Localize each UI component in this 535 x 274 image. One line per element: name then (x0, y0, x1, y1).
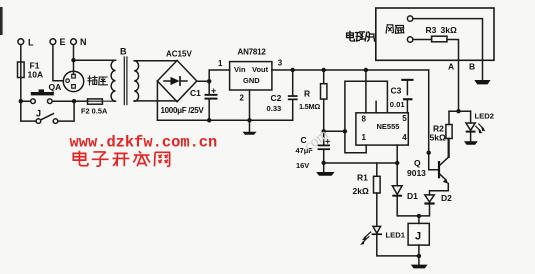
wire ground line to R1 top (324, 162, 398, 164)
timer NE555 (356, 113, 408, 145)
fan terminal bottom (407, 37, 412, 42)
wire pin4 down to D1 (396, 145, 398, 163)
svg-text:GND: GND (243, 76, 260, 85)
svg-text:NE555: NE555 (377, 122, 400, 131)
svg-text:QA: QA (49, 82, 62, 92)
wire secondary bottom to bridge (134, 100, 177, 102)
svg-text:J: J (415, 231, 421, 243)
wire fan top to B ground (413, 19, 483, 80)
wire A bar (449, 110, 471, 112)
ground under C (323, 163, 325, 172)
wire secondary top to bridge (134, 60, 177, 62)
svg-text:1: 1 (218, 59, 223, 68)
svg-text:LED2: LED2 (475, 111, 494, 120)
wire R3 to A (447, 40, 459, 112)
svg-text:N: N (80, 37, 87, 47)
relay contact J (36, 109, 58, 124)
wire QA contacts (23, 100, 74, 102)
ground B (474, 80, 490, 84)
node QA/F2/socket junction (72, 99, 76, 103)
node R bottom (322, 129, 326, 133)
svg-text:10A: 10A (28, 70, 44, 80)
svg-text:1000μF /25V: 1000μF /25V (161, 106, 205, 115)
watermark red 电子开发网 (73, 151, 169, 167)
svg-text:A: A (448, 61, 454, 71)
svg-text:R3: R3 (426, 25, 437, 35)
svg-text:2kΩ: 2kΩ (353, 186, 369, 196)
fan terminal top (407, 16, 412, 21)
svg-text:www.dzkfw.com.cn: www.dzkfw.com.cn (70, 133, 218, 151)
capacitor C1 (161, 81, 218, 120)
resistor R3 (413, 25, 457, 42)
svg-text:4: 4 (402, 133, 407, 142)
induction cooker box 电磁炉 (376, 8, 494, 60)
svg-text:0.33: 0.33 (267, 104, 282, 113)
ground under LED2 (464, 141, 478, 145)
wire pin 8 to rail (365, 70, 367, 113)
wire rail drop to Q base (428, 70, 430, 153)
node R top (322, 68, 326, 72)
wire node to F2 (74, 100, 87, 102)
pin 6 stub (375, 101, 377, 113)
svg-text:5kΩ: 5kΩ (430, 133, 446, 143)
label 电磁炉 (347, 31, 375, 41)
fuse F1 (18, 62, 25, 78)
svg-text:F2 0.5A: F2 0.5A (81, 107, 108, 116)
wire bridge plus to C1 node and pin1 (197, 70, 230, 81)
wire L to fuse F1 and down to QA node (20, 45, 22, 102)
node pin2/rail (247, 118, 251, 122)
pushbutton QA (31, 82, 62, 104)
svg-text:J: J (36, 109, 41, 119)
svg-text:AC15V: AC15V (166, 50, 192, 59)
capacitor C2 (267, 70, 298, 120)
resistor R2 (430, 111, 453, 157)
node C2 top (291, 68, 295, 72)
terminal L (18, 39, 24, 45)
svg-text:16V: 16V (296, 161, 309, 170)
wire N down (73, 45, 75, 75)
terminal E (50, 39, 56, 45)
wire N node to transformer primary (74, 59, 116, 61)
relay coil J (408, 216, 429, 265)
ground at pin 2 (249, 120, 251, 132)
node N/transformer (71, 58, 75, 62)
svg-text:8: 8 (362, 115, 367, 124)
wire down-left to J branch (21, 101, 36, 121)
scan smudge top-left (0, 7, 3, 35)
ground under J (411, 265, 428, 269)
svg-text:0.01: 0.01 (390, 100, 406, 109)
svg-text:D1: D1 (407, 191, 418, 201)
svg-text:3: 3 (278, 59, 283, 68)
node junction L/QA/J (19, 99, 23, 103)
svg-text:L: L (28, 38, 34, 48)
svg-text:Vin: Vin (234, 65, 246, 74)
svg-text:C3: C3 (391, 86, 402, 96)
svg-text:R1: R1 (357, 173, 368, 183)
socket (63, 71, 83, 91)
node A junction (456, 109, 460, 113)
wire bridge minus down (156, 81, 158, 120)
terminal N (71, 39, 77, 45)
node D1/D2/J (417, 214, 421, 218)
resistor R1 (353, 163, 381, 226)
svg-text:Vout: Vout (252, 65, 269, 74)
pin 3 rail (272, 69, 429, 71)
svg-text:1.5MΩ: 1.5MΩ (299, 102, 320, 111)
diode D2 (419, 193, 452, 216)
svg-text:C2: C2 (271, 93, 282, 103)
transistor Q 9013 (407, 139, 449, 195)
capacitor C3 (390, 79, 414, 113)
resistor R 1.5M (299, 70, 327, 131)
svg-text:B: B (469, 61, 475, 71)
regulator AN7812 (230, 48, 272, 91)
diode D1 (392, 163, 419, 216)
bottom rail (157, 119, 292, 121)
svg-text:3kΩ: 3kΩ (441, 25, 457, 35)
label 风扇 (386, 25, 404, 33)
fuse F2 (81, 99, 116, 116)
svg-text:LED1: LED1 (386, 231, 406, 240)
transformer B (111, 47, 139, 105)
node C bottom / ground (322, 161, 326, 165)
wire J right side up to QA node (58, 103, 74, 121)
svg-text:1: 1 (362, 133, 367, 142)
svg-text:2: 2 (240, 94, 245, 103)
svg-text:D2: D2 (441, 193, 452, 203)
label 插座 (88, 76, 107, 85)
svg-text:E: E (60, 37, 66, 47)
LED1 (360, 226, 419, 256)
svg-text:R: R (304, 89, 310, 99)
wire R bottom to pin1 path (324, 130, 345, 132)
svg-text:C1: C1 (190, 88, 201, 98)
svg-text:AN7812: AN7812 (238, 48, 267, 57)
svg-text:B: B (120, 47, 127, 57)
capacitor C 47uF (296, 131, 331, 170)
LED2 (466, 111, 494, 141)
wire E to socket (53, 45, 63, 81)
svg-text:9013: 9013 (407, 168, 426, 178)
bridge rectifier (157, 50, 196, 102)
node J bottom (417, 254, 421, 258)
node C1 bottom (207, 118, 211, 122)
pin 2 wire (249, 90, 251, 120)
wire pin1/pin7 loop (345, 81, 388, 153)
svg-text:5: 5 (402, 114, 407, 123)
svg-text:Q: Q (414, 158, 421, 168)
